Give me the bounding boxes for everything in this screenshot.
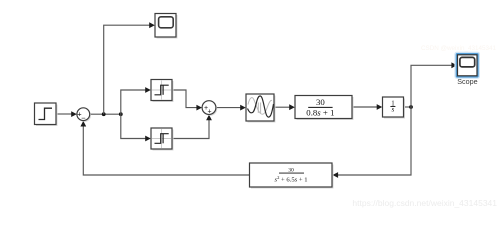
wire J2 down to relay B [121,114,151,141]
wire sum1 output [90,113,121,115]
node junction J1 [102,112,106,116]
svg-text:30: 30 [288,167,294,173]
feedback transfer function TF2 [250,163,334,189]
node junction J3 [409,105,413,109]
scope block Scope (selected) [454,52,480,79]
svg-text:s: s [391,106,394,114]
wire J3 up to Scope [411,62,457,107]
wire relay B to sum2 bottom [172,115,212,139]
wire relay A to sum2 [172,90,202,111]
svg-text:CSDN @weixin_43145341: CSDN @weixin_43145341 [421,45,496,52]
wire J1 up to Scope1 [104,22,155,114]
node junction J2 [119,112,123,116]
scope block Scope1 [155,14,178,39]
step source block [35,103,58,126]
transfer function TF1 [295,96,354,121]
wire integrator to junction J3 [404,106,412,108]
wire sum2 to backlash [216,105,246,111]
svg-text:+: + [208,109,212,116]
wire TF1 to integrator [352,104,382,110]
svg-text:30: 30 [316,97,325,107]
svg-text:0.8s + 1: 0.8s + 1 [306,108,334,118]
sum block S1 [77,108,91,123]
svg-text:Scope: Scope [457,77,477,86]
backlash block [246,94,276,123]
svg-text:−: − [81,114,86,123]
relay block B [151,128,174,151]
sum block S2 [202,101,217,116]
wire J2 up to relay A [121,87,151,114]
svg-text:s2 + 6.5s + 1: s2 + 6.5s + 1 [274,175,307,183]
relay block A [151,80,174,103]
wire backlash to TF1 [274,104,295,110]
integrator block 1/s [383,97,406,119]
svg-text:https://blog.csdn.net/weixin_4: https://blog.csdn.net/weixin_43145341 [352,198,497,208]
wire J3 down to feedback block [333,107,412,178]
wire step to sum1 [56,111,77,117]
wire feedback to sum1 bottom [80,121,249,175]
